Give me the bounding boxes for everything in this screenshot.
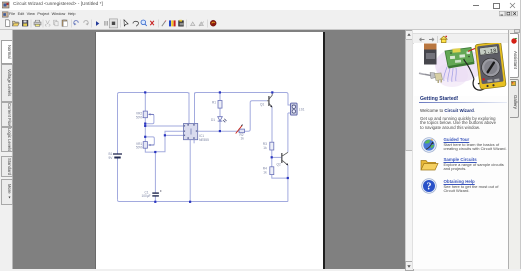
black lead loop xyxy=(473,79,486,90)
wire capacitor branch xyxy=(154,152,156,201)
sep xyxy=(30,20,32,28)
white page xyxy=(95,32,325,269)
node pins 2-6 xyxy=(164,134,166,136)
right tab strip xyxy=(508,30,521,269)
canvas scrollbar xyxy=(405,30,413,269)
transistor Q1 xyxy=(260,93,272,108)
MDI child buttons xyxy=(499,11,519,17)
menu bar xyxy=(0,10,521,18)
svg-text:1k: 1k xyxy=(263,146,267,150)
transistor Q2 xyxy=(277,152,289,166)
node VR2 top rail xyxy=(144,91,146,93)
play xyxy=(96,21,99,26)
wire IC top pins xyxy=(189,93,195,124)
resistor R3 xyxy=(263,142,274,150)
IC IC1 NE555 timer xyxy=(184,124,210,142)
component icon xyxy=(179,21,184,27)
wire IC output xyxy=(198,130,239,132)
wire speaker to Q2 collector xyxy=(288,113,291,152)
copy gray xyxy=(54,20,57,24)
wire VR1 bottom xyxy=(145,148,155,152)
node cap ground xyxy=(154,201,156,203)
open xyxy=(13,21,19,26)
wire IC pins 2-6 tie xyxy=(155,131,183,152)
zoom xyxy=(141,20,146,25)
svg-text:R1: R1 xyxy=(212,100,216,104)
green PCB xyxy=(445,48,474,67)
toggle switch xyxy=(419,73,443,84)
wire R3 to node xyxy=(271,150,273,157)
wire left vertical supply xyxy=(117,94,119,199)
battery B1 xyxy=(109,150,123,161)
wire R1 top xyxy=(219,93,221,101)
sep xyxy=(42,20,44,28)
node R4 emitter xyxy=(287,177,289,179)
sep xyxy=(158,20,160,28)
svg-text:1k: 1k xyxy=(241,137,245,141)
new xyxy=(6,20,10,27)
delete X xyxy=(150,21,154,25)
svg-text:Q1: Q1 xyxy=(260,103,264,107)
wire top rail left segment xyxy=(118,93,190,124)
undo xyxy=(74,21,78,25)
wire node to Q2 base xyxy=(272,156,282,158)
resistor R4 xyxy=(263,167,274,175)
wire node to R4 xyxy=(271,157,273,166)
speaker LS1 xyxy=(291,103,305,115)
multimeter xyxy=(475,42,506,90)
wire bottom ground rail xyxy=(118,200,288,202)
sep xyxy=(91,20,93,28)
sep xyxy=(207,20,209,28)
svg-text:Q2: Q2 xyxy=(277,162,281,166)
svg-text:100µF: 100µF xyxy=(142,194,151,198)
svg-text:1k: 1k xyxy=(263,171,267,175)
sep xyxy=(120,20,122,28)
wire VR2 branch xyxy=(144,93,146,142)
variable resistor R2 xyxy=(236,124,245,140)
node VR1 top xyxy=(144,136,146,138)
cursor xyxy=(124,20,128,26)
guided tour icon xyxy=(421,137,437,153)
left tab strip xyxy=(0,30,13,269)
wire R4 bottom jog xyxy=(272,175,288,179)
redo gray xyxy=(84,21,88,25)
wire VR2 wiper loop xyxy=(145,114,154,123)
red probe wire xyxy=(468,47,480,51)
Getting Started heading xyxy=(420,96,459,102)
pause xyxy=(104,21,105,26)
node R3 R4 base xyxy=(271,156,273,158)
svg-text:9V: 9V xyxy=(109,156,114,160)
node Q1 collector rail xyxy=(271,91,273,93)
node VR2 pin xyxy=(144,125,146,127)
lasso xyxy=(133,21,139,26)
wire IC ground pin xyxy=(189,140,191,202)
svg-text:D1: D1 xyxy=(211,118,215,122)
svg-text:NE555: NE555 xyxy=(199,138,209,142)
title bar xyxy=(0,0,521,10)
node R1 top rail xyxy=(219,91,221,93)
right assistant panel xyxy=(412,30,509,269)
print xyxy=(34,22,41,25)
wire top rail right segment xyxy=(195,93,291,106)
gray tool 2 xyxy=(199,22,203,26)
wire VR1 wiper loop xyxy=(145,137,154,145)
svg-text:LS1: LS1 xyxy=(299,107,305,111)
gray tool 1 xyxy=(191,22,195,26)
cut gray xyxy=(45,20,50,26)
save xyxy=(22,20,28,26)
schematic svg placed over page xyxy=(96,32,322,269)
paste xyxy=(62,20,67,26)
wire R1 to D1 xyxy=(219,108,221,116)
svg-text:50%: 50% xyxy=(136,146,143,150)
9V battery xyxy=(424,44,437,50)
toolbar xyxy=(0,18,521,30)
potentiometer VR2 xyxy=(136,111,154,119)
resistor R1 xyxy=(212,100,222,108)
node IC ground xyxy=(189,201,191,203)
node cap top xyxy=(154,151,156,153)
potentiometer VR1 xyxy=(136,142,154,150)
svg-text:?: ? xyxy=(427,182,432,193)
stop pressed xyxy=(109,19,117,28)
help icon xyxy=(421,178,437,194)
wire IC bottom stub xyxy=(193,140,195,144)
wire R2 to Q1 base xyxy=(245,101,268,131)
node D1 output xyxy=(219,130,221,132)
svg-text:50%: 50% xyxy=(136,115,143,119)
photo of circuit hardware xyxy=(414,43,508,96)
sep xyxy=(71,20,73,28)
sep xyxy=(186,20,188,28)
junction nodes xyxy=(144,91,289,203)
wire D1 to output node xyxy=(219,121,221,131)
colour bars xyxy=(169,20,171,26)
node VR2 wiper xyxy=(144,123,146,125)
nav bar xyxy=(413,30,509,34)
capacitor C1 xyxy=(142,190,162,198)
wire Q1 emitter to R3 xyxy=(271,107,273,142)
wire IC pin to VR2 node xyxy=(145,125,183,127)
folder icon xyxy=(420,158,439,171)
LED D1 xyxy=(211,117,227,123)
wire Q2 emitter down xyxy=(287,165,289,201)
red round icon xyxy=(210,20,216,26)
black probe wire xyxy=(464,60,474,79)
probe pen xyxy=(162,21,166,26)
